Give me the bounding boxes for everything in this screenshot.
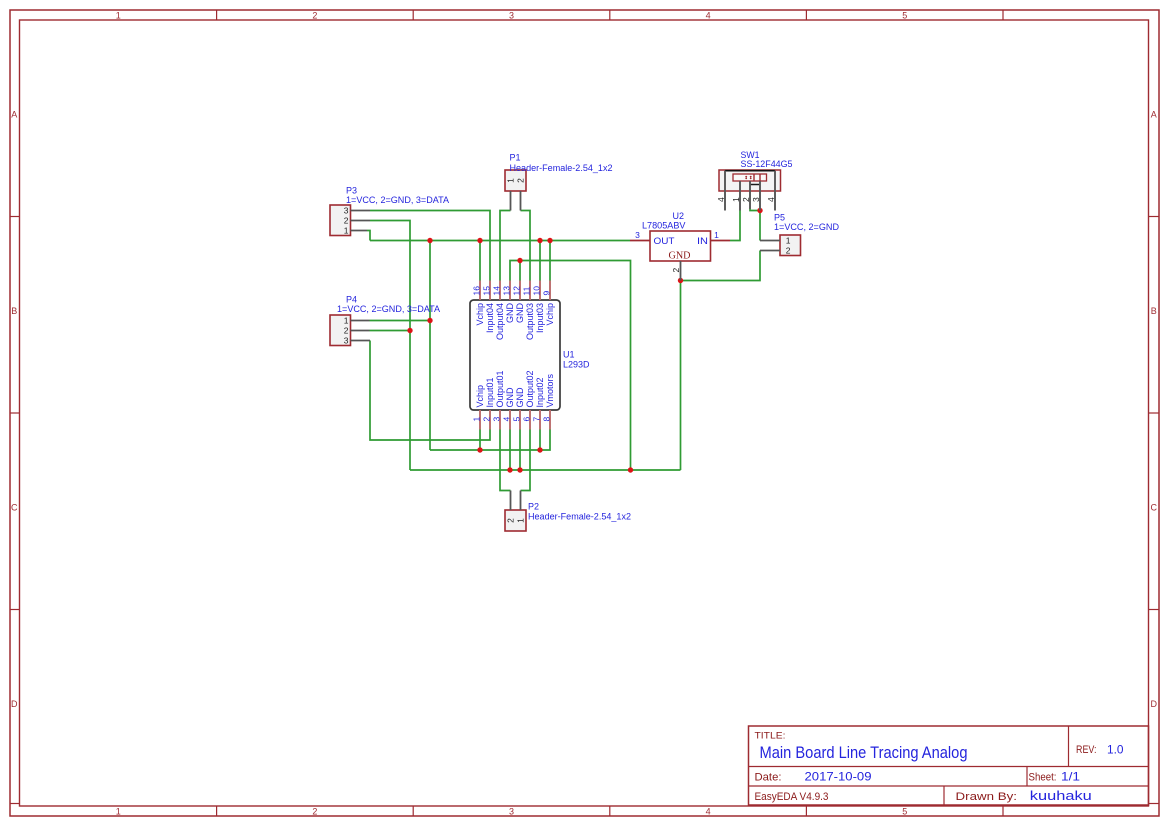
U1 bottom pin names	[475, 370, 555, 407]
svg-text:8: 8	[541, 417, 551, 422]
svg-text:SS-12F44G5: SS-12F44G5	[741, 159, 793, 169]
svg-text:1: 1	[471, 417, 481, 422]
wire SW1 pin2 to pin3	[750, 209, 760, 211]
U1 pin 11 (Output03) top stub	[529, 281, 531, 301]
svg-text:2: 2	[481, 417, 491, 422]
svg-text:1: 1	[714, 230, 719, 240]
svg-text:1: 1	[505, 178, 515, 183]
svg-text:OUT: OUT	[654, 236, 675, 247]
svg-text:P2: P2	[528, 502, 539, 512]
svg-text:P1: P1	[510, 153, 521, 163]
P2 pin 2 stub	[510, 491, 512, 511]
svg-text:3: 3	[491, 417, 501, 422]
svg-text:B: B	[11, 306, 17, 316]
svg-text:P4: P4	[346, 295, 357, 305]
P1 pin numbers	[505, 178, 525, 183]
svg-text:Input02: Input02	[535, 377, 545, 407]
U1 top pin names	[475, 303, 555, 341]
svg-text:2: 2	[505, 518, 515, 523]
svg-text:3: 3	[344, 336, 349, 346]
wire U1 pin12 riser	[519, 261, 521, 281]
P4 pin 2 stub	[351, 330, 370, 332]
connector P3	[330, 205, 351, 236]
P1 pin 1 stub	[510, 191, 512, 211]
wire U1 pin10 riser	[539, 241, 541, 281]
svg-text:4: 4	[706, 10, 711, 20]
svg-text:Vmotors: Vmotors	[545, 373, 555, 407]
junction GND x630	[628, 467, 633, 472]
svg-text:2: 2	[312, 10, 317, 20]
U1 pin 2 (Input01) bottom stub	[489, 410, 491, 430]
svg-text:GND: GND	[505, 303, 515, 324]
svg-text:D: D	[1151, 699, 1158, 709]
svg-text:10: 10	[531, 286, 541, 296]
junction VCC U1 pin10	[537, 238, 542, 243]
P3 pin 1 stub	[351, 230, 368, 232]
junction VCC U1 pin9	[547, 238, 552, 243]
svg-text:1=VCC, 2=GND, 3=DATA: 1=VCC, 2=GND, 3=DATA	[346, 195, 449, 205]
wire P1 pin2 to U1 pin11	[521, 211, 531, 281]
wire SW1 pin3 to P5 pin1	[759, 211, 761, 241]
svg-text:Input04: Input04	[485, 303, 495, 333]
svg-text:Output03: Output03	[525, 303, 535, 340]
svg-text:4: 4	[501, 417, 511, 422]
junction VCC P4 pin1	[427, 318, 432, 323]
P4 pin 3 stub	[351, 340, 371, 342]
svg-text:11: 11	[521, 286, 531, 295]
svg-text:Header-Female-2.54_1x2: Header-Female-2.54_1x2	[528, 512, 631, 522]
junction y450 U1 pin1	[477, 447, 482, 452]
U1 pin 16 (Vchip) top stub	[479, 281, 481, 301]
svg-text:EasyEDA V4.9.3: EasyEDA V4.9.3	[755, 791, 829, 803]
svg-text:Vchip: Vchip	[475, 385, 485, 408]
U1 pin 5 (GND) bottom stub	[519, 410, 521, 430]
svg-text:Main Board Line Tracing Analog: Main Board Line Tracing Analog	[760, 743, 968, 762]
voltage regulator U2	[650, 231, 711, 262]
svg-text:A: A	[1151, 109, 1157, 119]
U2 pin 1 IN stub	[711, 240, 731, 242]
svg-text:1: 1	[344, 316, 349, 326]
P3 pin numbers	[344, 206, 349, 236]
SW1 pin numbers	[716, 197, 776, 202]
wire P4 pin3 to U1 pin2 (Input01)	[370, 341, 490, 441]
svg-text:1: 1	[731, 197, 741, 202]
svg-text:13: 13	[501, 286, 511, 296]
wire P4 pin2 to GND riser	[370, 330, 411, 332]
wire U1 pin9 riser	[549, 241, 551, 281]
svg-text:7: 7	[531, 417, 541, 422]
junction GND P4 pin2	[407, 328, 412, 333]
wire U1 pin1 riser	[479, 430, 481, 451]
svg-text:GND: GND	[669, 251, 691, 262]
wire P3 pin3 to U1 pin15 (Input04)	[370, 211, 490, 281]
junction VCC U1 pin16	[477, 238, 482, 243]
svg-text:GND: GND	[505, 387, 515, 408]
wire VCC riser x430	[429, 241, 431, 451]
svg-text:D: D	[11, 699, 18, 709]
wire U1 pin16 riser	[479, 241, 481, 281]
svg-text:1.0: 1.0	[1107, 743, 1124, 757]
svg-text:4: 4	[706, 807, 711, 817]
junction y450 U1 pin7	[537, 447, 542, 452]
wire U1 pin5 riser	[519, 430, 521, 471]
U1 pin 9 (Vchip) top stub	[549, 281, 551, 301]
svg-text:Vchip: Vchip	[475, 303, 485, 326]
wire U1 pin6 (Output02) to P2 pin1	[521, 430, 531, 491]
header P2	[505, 510, 526, 531]
svg-text:2: 2	[786, 246, 791, 256]
P5 pin 1 stub	[760, 240, 780, 242]
wire P5 pin2 to GND	[681, 251, 761, 281]
U1 pin 1 (Vchip) bottom stub	[479, 410, 481, 430]
svg-text:Vchip: Vchip	[545, 303, 555, 326]
svg-text:C: C	[1151, 503, 1158, 513]
IC U1 body	[470, 300, 560, 410]
SW1 pin 4 left stub	[724, 171, 726, 211]
U1 pin 15 (Input04) top stub	[489, 281, 491, 301]
svg-text:2: 2	[515, 178, 525, 183]
svg-text:Output04: Output04	[495, 303, 505, 340]
svg-text:A: A	[11, 109, 17, 119]
svg-text:Input01: Input01	[485, 377, 495, 407]
U1 bottom pin numbers	[471, 417, 551, 422]
svg-text:Output02: Output02	[525, 370, 535, 407]
svg-text:1: 1	[786, 236, 791, 246]
svg-text:C: C	[11, 503, 18, 513]
svg-text:4: 4	[716, 197, 726, 202]
U1 top pin numbers	[471, 286, 551, 296]
wire P4 pin1 to VCC riser	[370, 320, 431, 322]
svg-text:L293D: L293D	[563, 359, 590, 369]
svg-text:Input03: Input03	[535, 303, 545, 333]
svg-text:4: 4	[766, 197, 776, 202]
SW1 pin 3 stub	[759, 181, 761, 211]
svg-text:3: 3	[509, 10, 514, 20]
svg-text:REV:: REV:	[1076, 744, 1097, 756]
U2 pin 2 GND stub	[680, 261, 682, 281]
svg-text:2: 2	[671, 268, 681, 273]
title block	[749, 726, 1149, 805]
svg-text:1=VCC, 2=GND, 3=DATA: 1=VCC, 2=GND, 3=DATA	[337, 304, 440, 314]
svg-text:2: 2	[344, 326, 349, 336]
svg-text:Sheet:: Sheet:	[1029, 772, 1057, 784]
P3 pin 3 stub	[351, 210, 371, 212]
svg-text:2: 2	[312, 807, 317, 817]
svg-text:3: 3	[635, 230, 640, 240]
wire U2 pin1 (IN) to SW1 pin1	[730, 211, 740, 241]
svg-text:2017-10-09: 2017-10-09	[805, 770, 872, 784]
svg-text:1/1: 1/1	[1061, 770, 1080, 784]
U1 pin 10 (Input03) top stub	[539, 281, 541, 301]
svg-text:L7805ABV: L7805ABV	[642, 221, 686, 231]
svg-text:3: 3	[509, 807, 514, 817]
P4 pin numbers	[344, 316, 349, 346]
svg-text:Date:: Date:	[755, 772, 782, 784]
P1 pin 2 stub	[520, 191, 522, 211]
SW1 pin 4 right stub	[774, 171, 776, 211]
P3 pin 2 stub	[351, 220, 371, 222]
svg-text:U1: U1	[563, 350, 575, 360]
svg-text:12: 12	[511, 286, 521, 296]
U1 pin 8 (Vmotors) bottom stub	[549, 410, 551, 430]
junction GND U1 pin12	[517, 258, 522, 263]
svg-text:6: 6	[521, 417, 531, 422]
connector P4	[330, 315, 351, 346]
U1 pin 7 (Input02) bottom stub	[539, 410, 541, 430]
junction SW1 pin3	[757, 208, 762, 213]
svg-text:16: 16	[471, 286, 481, 296]
svg-text:14: 14	[491, 286, 501, 296]
junction GND U1 pin5	[517, 467, 522, 472]
svg-text:15: 15	[481, 286, 491, 296]
wire P1 pin1 to U1 pin14	[500, 211, 511, 281]
U1 pin 4 (GND) bottom stub	[509, 410, 511, 430]
svg-text:Output01: Output01	[495, 370, 505, 407]
svg-text:IN: IN	[697, 236, 708, 247]
svg-text:1: 1	[116, 10, 121, 20]
P4 pin 1 stub	[351, 320, 370, 322]
svg-text:1: 1	[344, 226, 349, 236]
U2 pin 3 OUT stub	[630, 240, 650, 242]
U1 pin 13 (GND) top stub	[509, 281, 511, 301]
svg-text:GND: GND	[515, 387, 525, 408]
wire rail y450 to U1 pin8	[430, 430, 550, 451]
svg-text:2: 2	[741, 197, 751, 202]
svg-text:2: 2	[344, 216, 349, 226]
U1 pin 6 (Output02) bottom stub	[529, 410, 531, 430]
wire GND rail y470	[410, 469, 681, 471]
header P1	[505, 170, 526, 191]
junction VCC x430	[427, 238, 432, 243]
svg-text:3: 3	[751, 197, 761, 202]
svg-text:1: 1	[116, 807, 121, 817]
wire U1 pin7 riser	[539, 430, 541, 451]
svg-text:3: 3	[344, 206, 349, 216]
svg-text:5: 5	[902, 807, 907, 817]
svg-text:TITLE:: TITLE:	[755, 731, 786, 742]
svg-text:5: 5	[902, 10, 907, 20]
svg-text:1: 1	[515, 518, 525, 523]
wire U2 pin2 GND riser	[680, 281, 682, 471]
wire U1 pin13 GND top rail	[510, 261, 631, 471]
junction GND U1 pin4	[507, 467, 512, 472]
svg-text:B: B	[1151, 306, 1157, 316]
P2 pin numbers	[505, 518, 525, 523]
wire VCC rail	[370, 240, 630, 242]
wire U1 pin4 riser	[509, 430, 511, 471]
SW1 pin 1 stub	[739, 181, 741, 211]
svg-text:5: 5	[511, 417, 521, 422]
U1 pin 3 (Output01) bottom stub	[499, 410, 501, 430]
wire P3 pin1 to VCC rail	[367, 231, 370, 241]
wire U1 pin3 (Output01) to P2 pin2	[500, 430, 511, 491]
junction U2 GND	[678, 278, 683, 283]
wire P3 pin2 to GND rail	[370, 221, 410, 471]
U1 pin 12 (GND) top stub	[519, 281, 521, 301]
SW1 pin 2 stub	[749, 181, 751, 209]
U1 pin 14 (Output04) top stub	[499, 281, 501, 301]
svg-text:GND: GND	[515, 303, 525, 324]
svg-text:1=VCC, 2=GND: 1=VCC, 2=GND	[774, 222, 839, 232]
P5 pin 2 stub	[760, 250, 780, 252]
switch SW1 body	[719, 170, 781, 191]
svg-text:Drawn By:: Drawn By:	[956, 791, 1018, 803]
P5 pin numbers	[786, 236, 791, 256]
svg-text:U2: U2	[673, 211, 685, 221]
svg-text:Header-Female-2.54_1x2: Header-Female-2.54_1x2	[510, 163, 613, 173]
svg-text:kuuhaku: kuuhaku	[1030, 788, 1092, 803]
svg-text:9: 9	[541, 291, 551, 296]
P2 pin 1 stub	[520, 491, 522, 511]
connector P5	[780, 235, 801, 256]
